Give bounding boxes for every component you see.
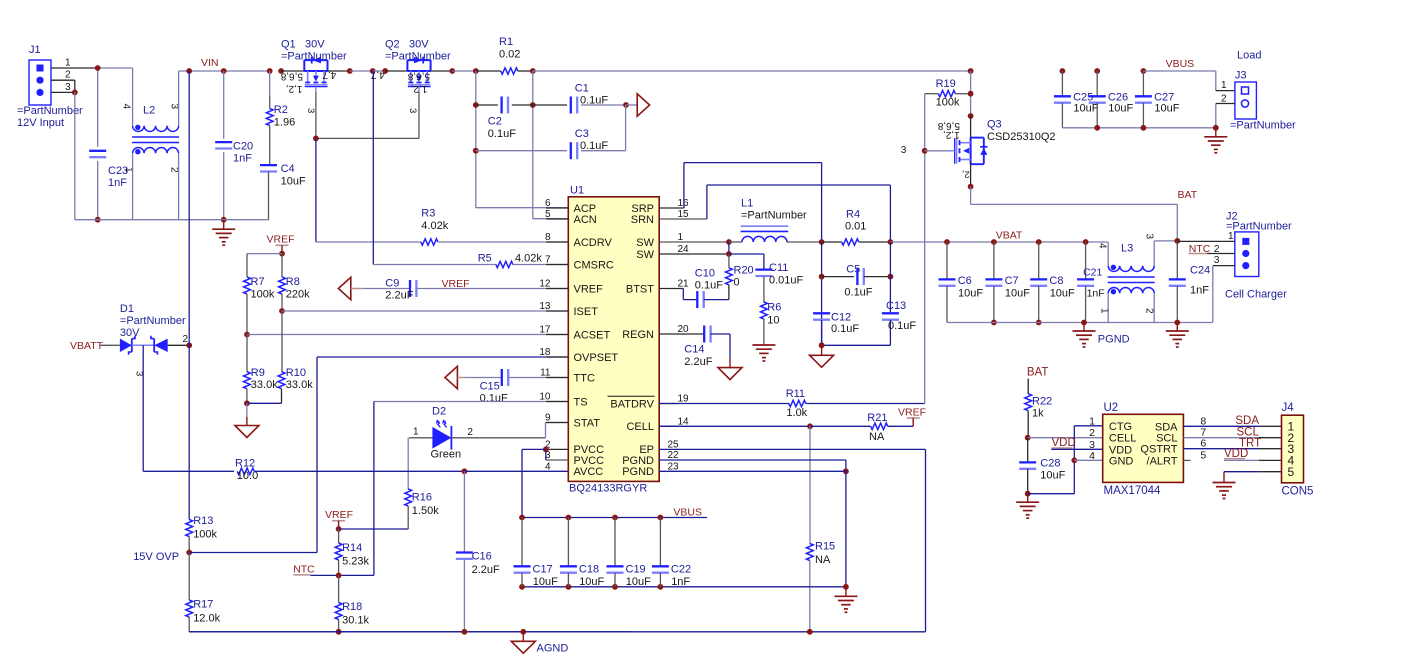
svg-text:Q1: Q1 xyxy=(281,39,296,51)
svg-text:10: 10 xyxy=(767,315,779,327)
wire STAT pin 9 xyxy=(545,423,547,438)
svg-text:C10: C10 xyxy=(695,268,715,280)
svg-text:0.1uF: 0.1uF xyxy=(580,140,608,152)
svg-text:BTST: BTST xyxy=(626,283,654,295)
svg-text:1nF: 1nF xyxy=(108,177,127,189)
wire D1 pin3 down xyxy=(142,345,144,471)
wire VIN sense vertical xyxy=(188,71,190,345)
svg-text:100k: 100k xyxy=(193,529,217,541)
svg-text:2: 2 xyxy=(169,167,180,173)
svg-text:AGND: AGND xyxy=(537,643,569,655)
svg-text:0.1uF: 0.1uF xyxy=(844,286,872,298)
port arrow right xyxy=(626,104,637,106)
capacitor C15 0.1uF xyxy=(466,377,502,379)
resistor R10 33.0k xyxy=(278,372,285,389)
svg-text:4: 4 xyxy=(121,104,132,110)
wire Q3 to BAT xyxy=(970,187,972,205)
svg-text:L3: L3 xyxy=(1121,243,1133,255)
svg-text:Q2: Q2 xyxy=(385,39,400,51)
svg-text:VBUS: VBUS xyxy=(1166,58,1195,70)
wire Q3 gate xyxy=(925,150,949,152)
wire J1 pin1 to VIN rail xyxy=(51,67,98,69)
svg-text:C16: C16 xyxy=(472,550,492,562)
svg-text:C28: C28 xyxy=(1040,458,1060,470)
wire PVCC to VBUS xyxy=(522,448,546,450)
capacitor C27 10uF xyxy=(1142,71,1144,96)
svg-text:C21: C21 xyxy=(1083,267,1102,279)
wire gate drive vertical xyxy=(924,151,926,404)
svg-text:C12: C12 xyxy=(831,312,851,324)
wire J3 pin2 down xyxy=(1215,104,1217,128)
node gate junction xyxy=(313,136,319,142)
svg-text:=PartNumber: =PartNumber xyxy=(385,51,451,63)
capacitor C24 1nF xyxy=(1176,241,1178,279)
node VREF divider xyxy=(279,251,285,257)
svg-text:BQ24133RGYR: BQ24133RGYR xyxy=(569,483,647,495)
svg-text:2: 2 xyxy=(467,427,473,438)
svg-text:0.1uF: 0.1uF xyxy=(480,393,508,405)
svg-text:Load: Load xyxy=(1237,50,1261,62)
wire C25 C27 bottom rail xyxy=(1062,127,1215,129)
node PGND xyxy=(843,468,849,474)
svg-text:0.01uF: 0.01uF xyxy=(769,275,804,287)
transformer L3 xyxy=(1107,242,1109,266)
svg-text:33.0k: 33.0k xyxy=(286,379,313,391)
wire ACP sense vertical xyxy=(475,71,477,208)
svg-text:3: 3 xyxy=(65,82,71,93)
node GND pin4 xyxy=(1071,457,1077,463)
wire L2 pin2 xyxy=(178,153,180,219)
svg-text:10uF: 10uF xyxy=(1108,103,1133,115)
svg-text:R15: R15 xyxy=(815,541,835,553)
resistor R13 100k xyxy=(186,520,193,537)
svg-text:1.96: 1.96 xyxy=(274,117,295,129)
resistor R6 10 xyxy=(761,302,768,319)
wire SRP loop xyxy=(659,207,684,209)
wire ACN sense vertical xyxy=(532,71,534,219)
wire Q3 drain xyxy=(970,71,972,116)
wire L2 pin1 xyxy=(132,153,134,219)
wire L2 pin3 to VIN xyxy=(178,71,180,126)
svg-text:0.1uF: 0.1uF xyxy=(831,323,859,335)
wire pin stubs xyxy=(546,207,568,209)
svg-text:VREF: VREF xyxy=(266,234,294,246)
svg-text:0.1uF: 0.1uF xyxy=(580,94,608,106)
svg-text:1nF: 1nF xyxy=(1087,288,1105,300)
svg-text:NTC: NTC xyxy=(293,564,315,576)
wire L3 pin2 xyxy=(1153,293,1155,322)
svg-text:220k: 220k xyxy=(286,288,310,300)
wire ALRT stub xyxy=(1184,459,1191,461)
svg-text:AVCC: AVCC xyxy=(574,466,604,478)
wire C12 C13 bottom xyxy=(821,320,823,345)
op-amp U2 MAX17044 fuel gauge xyxy=(1103,414,1184,482)
svg-text:1nF: 1nF xyxy=(1190,285,1209,297)
port arrow VREF filter xyxy=(338,277,350,300)
svg-text:100k: 100k xyxy=(936,96,960,108)
resistor R8 220k xyxy=(281,254,283,277)
wire VIN rail xyxy=(179,70,270,72)
capacitor C9 2.2uF xyxy=(362,288,410,290)
node C1 right xyxy=(623,102,629,108)
ground below VBUS caps xyxy=(845,587,847,597)
svg-text:R9: R9 xyxy=(251,367,265,379)
svg-text:10.0: 10.0 xyxy=(237,470,258,482)
svg-text:0.01: 0.01 xyxy=(845,221,866,233)
svg-text:PGND: PGND xyxy=(622,466,654,478)
wire Q2 to R1 xyxy=(431,70,454,72)
wire CTG pin1 xyxy=(1074,425,1102,427)
svg-text:C1: C1 xyxy=(575,82,589,94)
svg-text:2.2uF: 2.2uF xyxy=(472,564,500,576)
svg-text:10uF: 10uF xyxy=(1050,287,1075,299)
svg-text:BAT: BAT xyxy=(1178,189,1198,201)
svg-text:Green: Green xyxy=(431,449,462,461)
ground C12 xyxy=(821,345,823,355)
svg-text:R16: R16 xyxy=(412,492,432,504)
ground below C20 xyxy=(223,220,225,230)
node C16 bottom xyxy=(462,629,468,635)
resistor R12 10.0 xyxy=(143,470,234,472)
capacitor C20 1nF xyxy=(223,71,225,139)
svg-text:R1: R1 xyxy=(499,36,513,48)
wire VBAT bottom rail xyxy=(947,322,1213,324)
resistor R5 4.02k xyxy=(373,264,496,266)
svg-text:L1: L1 xyxy=(741,198,753,210)
svg-text:C22: C22 xyxy=(671,564,691,576)
svg-text:C7: C7 xyxy=(1005,275,1019,287)
svg-text:ACN: ACN xyxy=(574,214,597,226)
node ISET junction xyxy=(279,308,285,314)
svg-text:C24: C24 xyxy=(1190,265,1210,277)
wire GND loop xyxy=(1028,493,1075,495)
node PVCC xyxy=(543,447,549,453)
capacitor C18 10uF xyxy=(567,518,569,567)
svg-text:2: 2 xyxy=(1089,427,1095,439)
svg-text:5.23k: 5.23k xyxy=(342,555,369,567)
bottom return rail xyxy=(75,219,269,221)
port arrow TTC xyxy=(445,366,457,389)
node BAT J2 xyxy=(1174,238,1180,244)
node Q3 source xyxy=(968,184,974,190)
capacitor C13 0.1uF xyxy=(889,242,891,313)
svg-text:8: 8 xyxy=(1200,415,1206,427)
svg-text:PGND: PGND xyxy=(622,455,654,467)
svg-text:R5: R5 xyxy=(478,253,492,265)
connector J2 cell charger xyxy=(1235,232,1259,277)
svg-text:TTC: TTC xyxy=(574,372,595,384)
svg-text:VBAT: VBAT xyxy=(996,230,1023,242)
svg-text:C13: C13 xyxy=(886,300,906,312)
node AVCC C16 xyxy=(462,468,468,474)
node C24 bottom xyxy=(1174,320,1180,326)
wire ACN to pin 5 xyxy=(533,218,569,220)
resistor R19 100k xyxy=(924,94,926,151)
svg-text:SW: SW xyxy=(636,237,654,249)
svg-text:1nF: 1nF xyxy=(233,153,252,165)
svg-text:VBATT: VBATT xyxy=(70,340,104,352)
svg-text:Cell Charger: Cell Charger xyxy=(1225,289,1287,301)
svg-text:R2: R2 xyxy=(274,104,288,116)
wire Q3 source xyxy=(970,162,972,186)
svg-text:ACSET: ACSET xyxy=(574,329,611,341)
svg-text:C3: C3 xyxy=(575,128,589,140)
wire ACP to pin 6 xyxy=(476,207,569,209)
connector J4 CON5 xyxy=(1282,415,1304,483)
node NTC junction xyxy=(336,573,342,579)
ground AGND xyxy=(520,629,526,635)
svg-text:ACDRV: ACDRV xyxy=(574,237,613,249)
svg-text:5: 5 xyxy=(1200,449,1206,461)
svg-text:L2: L2 xyxy=(143,105,155,117)
svg-text:SCL: SCL xyxy=(1237,426,1260,438)
svg-text:30V: 30V xyxy=(120,327,140,339)
wire BAT down to J2 xyxy=(1176,204,1178,241)
wire Q1 drain to Q2 xyxy=(328,70,350,72)
svg-text:U2: U2 xyxy=(1104,402,1119,414)
svg-text:VREF: VREF xyxy=(442,278,470,290)
node R15 bottom xyxy=(807,629,813,635)
svg-text:D2: D2 xyxy=(432,406,446,418)
capacitor C14 2.2uF xyxy=(659,333,704,335)
svg-text:BATDRV: BATDRV xyxy=(610,398,654,410)
wire VBAT rail xyxy=(890,241,1108,243)
resistor R15 NA xyxy=(809,426,811,543)
node CMSRC tap xyxy=(370,68,376,74)
wire C11 branch xyxy=(729,253,764,255)
resistor R16 1.50k xyxy=(405,489,412,506)
wire C3 up to C1 xyxy=(625,105,627,151)
svg-text:C18: C18 xyxy=(579,564,599,576)
svg-text:6: 6 xyxy=(1200,438,1206,450)
svg-text:C2: C2 xyxy=(488,115,502,127)
svg-text:R18: R18 xyxy=(342,601,362,613)
wire PVCC pins xyxy=(546,448,569,450)
svg-text:C14: C14 xyxy=(684,344,704,356)
svg-text:3: 3 xyxy=(407,108,418,113)
resistor R1 0.02 xyxy=(476,70,501,72)
wire J4 pin5 xyxy=(1224,471,1259,473)
svg-text:TS: TS xyxy=(574,396,588,408)
svg-text:U1: U1 xyxy=(570,185,584,197)
node C20 top xyxy=(221,68,227,74)
wire J1 return to bottom rail xyxy=(74,92,76,219)
capacitor C10 0.1uF xyxy=(659,288,683,290)
svg-text:0.02: 0.02 xyxy=(499,49,520,61)
svg-text:C8: C8 xyxy=(1049,275,1063,287)
svg-text:3: 3 xyxy=(169,104,180,110)
inductor L1 xyxy=(729,241,742,243)
svg-text:12.0k: 12.0k xyxy=(193,613,220,625)
svg-text:10uF: 10uF xyxy=(958,287,983,299)
svg-text:1: 1 xyxy=(1221,80,1227,91)
resistor R4 0.01 xyxy=(822,241,842,243)
wire gate to R3 xyxy=(315,138,317,242)
svg-text:R17: R17 xyxy=(193,599,213,611)
wire L3 pin1 xyxy=(1107,293,1109,322)
svg-text:R13: R13 xyxy=(193,515,213,527)
wire VBUS to J3 xyxy=(1143,70,1215,72)
ground PGND xyxy=(1083,323,1085,332)
svg-text:J4: J4 xyxy=(1282,402,1295,414)
wire D2 to R16 xyxy=(407,438,409,489)
svg-text:3: 3 xyxy=(1144,234,1155,240)
node C12 gnd xyxy=(819,342,825,348)
svg-text:1: 1 xyxy=(1089,415,1095,427)
node J3 ground xyxy=(1213,125,1219,131)
svg-text:OVPSET: OVPSET xyxy=(574,352,619,364)
svg-text:C17: C17 xyxy=(533,564,553,576)
svg-text:1.0k: 1.0k xyxy=(786,407,807,419)
node R1 right xyxy=(530,68,536,74)
capacitor C12 0.1uF xyxy=(813,312,830,314)
svg-text:C20: C20 xyxy=(233,141,253,153)
svg-text:4.02k: 4.02k xyxy=(421,220,448,232)
svg-text:D1: D1 xyxy=(120,303,134,315)
svg-text:BAT: BAT xyxy=(1027,366,1049,378)
wire NTC row xyxy=(311,574,374,576)
connector J3 load xyxy=(1235,82,1257,119)
svg-text:=PartNumber: =PartNumber xyxy=(741,210,807,222)
svg-text:2: 2 xyxy=(1214,244,1220,255)
wire TRT xyxy=(1184,448,1259,450)
transistor Q1 PMOS 30V xyxy=(304,70,327,72)
wire CELL to U2 xyxy=(1028,437,1103,439)
wire rail to Q1 xyxy=(281,70,304,72)
svg-text:CELL: CELL xyxy=(626,421,654,433)
svg-text:CON5: CON5 xyxy=(1282,486,1314,498)
svg-text:CMSRC: CMSRC xyxy=(574,259,614,271)
capacitor C22 1nF xyxy=(659,518,661,567)
capacitor C21 1nF xyxy=(1085,242,1087,279)
node R19 gate xyxy=(922,148,928,154)
ground below J3 xyxy=(1215,128,1217,137)
transistor Q2 PMOS 30V xyxy=(407,70,430,72)
svg-text:REGN: REGN xyxy=(622,329,654,341)
node SW xyxy=(726,239,732,245)
resistor R18 30.1k xyxy=(338,575,340,602)
svg-text:=PartNumber: =PartNumber xyxy=(17,105,83,117)
wire AGND bottom rail xyxy=(189,631,632,633)
wire 15V OVP row xyxy=(189,552,317,554)
svg-text:C11: C11 xyxy=(769,262,788,274)
resistor R2 1.96 xyxy=(267,68,273,74)
wire SW pin 1 xyxy=(659,241,729,243)
svg-text:R11: R11 xyxy=(786,388,805,400)
resistor R3 4.02k xyxy=(316,241,421,243)
wire J2 pin3 xyxy=(1213,265,1235,267)
svg-text:PGND: PGND xyxy=(1098,334,1130,346)
svg-text:10uF: 10uF xyxy=(533,576,558,588)
svg-text:5: 5 xyxy=(1288,465,1295,479)
wire R9 R10 bottom xyxy=(247,402,282,404)
wire J1 pin3 xyxy=(51,91,75,93)
wire ACSET pin 17 xyxy=(247,334,568,336)
wire VBUS top rail xyxy=(533,70,971,72)
svg-text:SDA: SDA xyxy=(1155,421,1178,433)
svg-text:4: 4 xyxy=(1097,243,1108,249)
svg-text:30V: 30V xyxy=(409,39,429,51)
capacitor C16 2.2uF xyxy=(463,471,465,552)
wire J2 pin2 xyxy=(1207,253,1235,255)
node CELL U2 xyxy=(1025,435,1031,441)
svg-text:=PartNumber: =PartNumber xyxy=(281,51,347,63)
resistor R7 100k xyxy=(246,254,248,277)
svg-text:33.0k: 33.0k xyxy=(251,379,278,391)
resistor R20 0 xyxy=(728,254,730,268)
node L1 out xyxy=(819,239,825,245)
svg-text:1: 1 xyxy=(413,427,419,438)
svg-text:MAX17044: MAX17044 xyxy=(1104,485,1162,497)
node R18 bottom xyxy=(336,629,342,635)
ground C14 xyxy=(729,334,731,358)
svg-text:2.2uF: 2.2uF xyxy=(684,356,712,368)
svg-text:C6: C6 xyxy=(958,275,972,287)
wire R16 bottom to VREF xyxy=(339,528,409,530)
op-amp U1 BQ24133RGYR charger IC xyxy=(568,197,659,482)
svg-text:R19: R19 xyxy=(936,78,956,90)
wire VBUS cap rail bottom xyxy=(522,586,846,588)
wire L3 pin3 to BAT xyxy=(1154,240,1177,242)
capacitor C19 10uF xyxy=(614,518,616,567)
svg-text:3: 3 xyxy=(901,145,907,156)
svg-text:1,2,: 1,2, xyxy=(286,83,303,94)
node R1 left xyxy=(473,68,479,74)
capacitor C4 10uF xyxy=(260,164,277,166)
svg-text:C5: C5 xyxy=(846,263,860,275)
svg-text:GND: GND xyxy=(1109,455,1134,467)
wire L2 pin4 xyxy=(132,68,134,126)
svg-text:1.50k: 1.50k xyxy=(412,505,439,517)
svg-text:1: 1 xyxy=(65,58,71,69)
svg-text:2: 2 xyxy=(1144,308,1155,314)
wire AVCC pin 4 xyxy=(464,470,568,472)
wire CELL pin 14 xyxy=(659,425,810,427)
resistor R14 5.23k xyxy=(338,529,340,543)
capacitor C2 0.1uF xyxy=(476,104,498,106)
svg-text:Q3: Q3 xyxy=(987,119,1002,131)
svg-text:0: 0 xyxy=(734,277,740,289)
svg-text:=PartNumber: =PartNumber xyxy=(1230,120,1296,132)
wire BATDRV R11 xyxy=(659,403,789,405)
capacitor C1 0.1uF xyxy=(533,104,567,106)
svg-text:CSD25310Q2: CSD25310Q2 xyxy=(987,131,1056,143)
svg-text:R7: R7 xyxy=(251,276,265,288)
svg-text:10uF: 10uF xyxy=(1154,103,1179,115)
svg-text:R4: R4 xyxy=(846,209,860,221)
svg-text:0.1uF: 0.1uF xyxy=(695,280,723,292)
connector J1 12V input xyxy=(29,60,51,105)
svg-text:VREF: VREF xyxy=(325,509,353,521)
capacitor C17 10uF xyxy=(521,518,523,567)
svg-text:3: 3 xyxy=(1214,255,1220,266)
node CELL xyxy=(807,423,813,429)
svg-text:10uF: 10uF xyxy=(1005,287,1030,299)
wire OVPSET xyxy=(317,356,568,358)
svg-text:30V: 30V xyxy=(305,39,325,51)
wire to Q2 xyxy=(385,70,407,72)
svg-text:VBUS: VBUS xyxy=(673,507,702,519)
svg-text:J1: J1 xyxy=(29,44,41,56)
svg-text:PVCC: PVCC xyxy=(574,455,605,467)
wire divider top xyxy=(247,253,282,255)
transistor Q3 CSD25310Q2 xyxy=(970,138,972,165)
node VIN vertical junction xyxy=(186,68,192,74)
svg-text:0.1uF: 0.1uF xyxy=(488,128,516,140)
svg-text:100k: 100k xyxy=(251,288,275,300)
svg-text:2,: 2, xyxy=(962,169,970,180)
svg-text:1,2,: 1,2, xyxy=(943,129,960,140)
